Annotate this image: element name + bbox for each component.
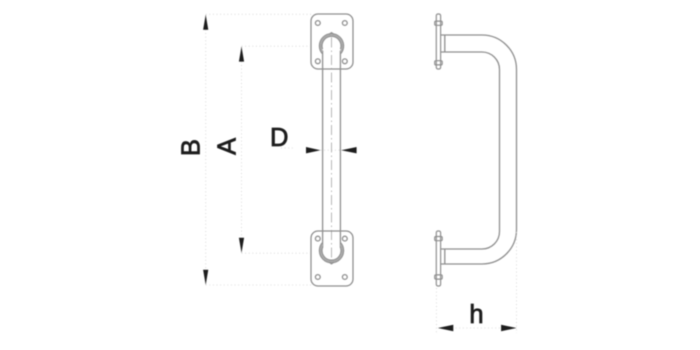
svg-text:D: D <box>270 124 288 152</box>
svg-text:B: B <box>178 139 206 156</box>
svg-text:A: A <box>214 138 242 155</box>
svg-text:h: h <box>469 301 483 329</box>
